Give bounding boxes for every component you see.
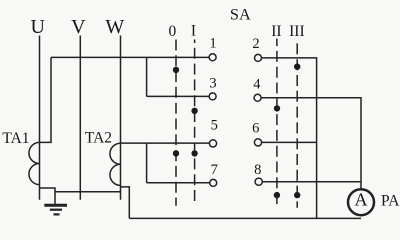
svg-text:SA: SA <box>230 4 251 23</box>
svg-text:PA: PA <box>381 193 400 210</box>
svg-text:4: 4 <box>253 77 261 93</box>
svg-text:5: 5 <box>211 117 218 133</box>
svg-text:1: 1 <box>209 36 216 52</box>
ammeter PA label <box>381 193 400 210</box>
wire TA2 bottom hook <box>121 187 130 219</box>
wire row contact 3 <box>147 95 210 97</box>
contact 1 label <box>209 36 216 52</box>
switch contact dot row5 track0 <box>173 150 179 156</box>
node V label <box>71 16 86 38</box>
wire row contact 8 <box>262 181 361 183</box>
switch contact dot row1 track0 <box>173 67 179 73</box>
wire row contact 2 <box>262 58 317 219</box>
contact 5 circle <box>209 140 216 147</box>
contact 7 label <box>211 162 218 178</box>
switch contact dot row2 trackIII <box>294 63 300 69</box>
transformer TA1 label <box>2 130 29 147</box>
transformer TA1 secondary winding <box>29 142 40 184</box>
svg-text:6: 6 <box>252 121 259 137</box>
svg-text:III: III <box>289 23 305 40</box>
wire phase U <box>39 36 41 200</box>
contact 2 label <box>252 36 259 52</box>
switch SA label <box>230 4 251 23</box>
wire row contact 1 <box>51 56 209 58</box>
contact 7 circle <box>210 179 217 186</box>
ammeter A letter <box>355 190 368 210</box>
contact 4 label <box>253 77 261 93</box>
contact 2 circle <box>255 54 262 61</box>
svg-text:U: U <box>30 16 45 38</box>
contact 8 label <box>254 162 261 178</box>
svg-text:V: V <box>71 16 86 38</box>
wire ground bus <box>55 191 121 193</box>
switch contact dot row8 trackII <box>274 192 280 198</box>
contact 6 label <box>252 121 259 137</box>
contact 4 circle <box>254 94 261 101</box>
switch position III label <box>289 23 305 40</box>
contact 5 label <box>211 117 218 133</box>
contact 8 circle <box>255 178 262 185</box>
wire TA1 top hook <box>40 57 52 142</box>
svg-text:A: A <box>355 190 368 210</box>
node U label <box>30 16 45 38</box>
switch position 0 label <box>169 23 177 40</box>
switch track III dashed <box>296 39 298 208</box>
transformer TA2 secondary winding <box>110 143 121 185</box>
switch position I label <box>191 23 196 40</box>
switch contact dot row8 trackIII <box>294 192 300 198</box>
contact 3 label <box>209 76 216 92</box>
wire bottom return <box>129 217 361 219</box>
switch track 0 dashed <box>175 40 177 206</box>
contact 3 circle <box>209 93 216 100</box>
svg-text:7: 7 <box>211 162 218 178</box>
wire row contact 6 <box>262 141 317 143</box>
svg-text:TA2: TA2 <box>85 129 112 146</box>
transformer TA2 label <box>85 129 112 146</box>
svg-text:8: 8 <box>254 162 261 178</box>
wire row contact 5 <box>121 142 210 144</box>
wire row contact 7 <box>147 182 210 184</box>
switch contact dot row4 trackII <box>274 105 280 111</box>
svg-text:3: 3 <box>209 76 216 92</box>
svg-text:I: I <box>191 23 196 40</box>
switch position II label <box>271 23 281 40</box>
switch track I dashed <box>194 40 196 206</box>
svg-text:0: 0 <box>169 23 177 40</box>
contact 6 circle <box>254 139 261 146</box>
svg-text:W: W <box>105 16 124 38</box>
wire branch rows 1-3 <box>146 57 148 96</box>
wire phase V <box>79 36 81 200</box>
ammeter PA circle <box>348 189 374 215</box>
node W label <box>105 16 124 38</box>
wire phase W <box>120 36 122 200</box>
switch contact dot row3 trackI <box>191 108 197 114</box>
wire branch rows 5-7 <box>146 143 148 183</box>
svg-text:TA1: TA1 <box>2 130 29 147</box>
svg-text:2: 2 <box>252 36 259 52</box>
contact 1 circle <box>209 54 216 61</box>
switch track II dashed <box>276 39 278 208</box>
svg-text:II: II <box>271 23 281 40</box>
ground symbol <box>44 205 67 214</box>
wire row contact 4 to ammeter <box>261 98 361 190</box>
wire TA1 bottom hook <box>40 188 56 205</box>
switch contact dot row5 trackI <box>191 150 197 156</box>
